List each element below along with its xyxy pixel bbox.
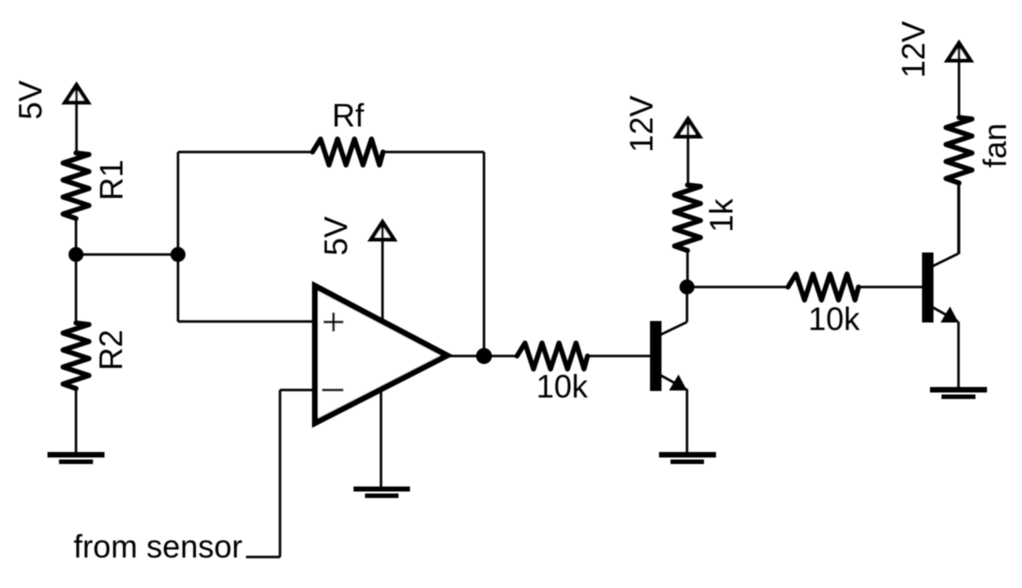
resistor 10k (base Q1) <box>517 343 588 369</box>
op-amp plus sign <box>324 313 344 332</box>
wire Rf left <box>178 151 314 154</box>
svg-text:10k: 10k <box>536 369 589 405</box>
wire Q2 collector vertical <box>957 183 960 254</box>
wire 10k to Q2 base <box>859 286 923 289</box>
wire node C to 10k (Q2 base) <box>687 286 788 289</box>
power symbol 12V (fan) <box>948 43 971 61</box>
wire Q1 emitter to ground <box>686 389 689 453</box>
ground under Q1 <box>659 452 716 464</box>
resistor fan <box>946 118 972 184</box>
output junction dot <box>476 348 492 364</box>
wire Q1 collector vertical <box>686 287 689 322</box>
wire 12V supply to fan <box>958 42 961 118</box>
wire Q2 emitter to ground <box>957 322 960 389</box>
wire Rf right <box>383 151 484 154</box>
ground under op-amp <box>354 487 411 499</box>
wire op-amp 5V supply <box>381 221 384 320</box>
wire 10k to Q1 base <box>588 355 651 358</box>
wire 12V supply to 1k <box>687 118 690 186</box>
svg-text:R2: R2 <box>93 330 129 371</box>
transistor Q2 emitter line <box>933 308 958 322</box>
svg-text:fan: fan <box>977 123 1013 167</box>
wire node C to 1k <box>686 251 689 287</box>
op-amp minus sign <box>322 389 344 392</box>
wire node A to node B <box>76 253 178 256</box>
wire fan to Q2 collector <box>958 183 961 254</box>
op-amp U1 <box>315 286 447 423</box>
wire 5V supply to R1 <box>75 84 78 155</box>
transistor Q2 collector line <box>933 254 959 267</box>
transistor Q1 base bar <box>650 321 662 391</box>
svg-text:12V: 12V <box>624 95 660 153</box>
wire node B feedback vertical <box>177 152 180 322</box>
svg-text:1k: 1k <box>704 198 740 233</box>
wire to op-amp plus input <box>178 320 316 323</box>
resistor R2 <box>63 323 89 389</box>
node B junction dot <box>171 247 186 262</box>
wire node A to R2 <box>75 255 78 325</box>
resistor 10k (base Q2) <box>788 274 859 300</box>
wire from sensor horizontal <box>246 556 280 559</box>
svg-text:R1: R1 <box>94 160 130 201</box>
node C junction dot <box>680 280 695 295</box>
svg-text:from sensor: from sensor <box>74 529 243 565</box>
ground under Q2 <box>930 387 987 399</box>
wire op-amp output <box>450 355 518 358</box>
transistor Q2 emitter arrow <box>941 307 959 323</box>
transistor Q1 collector line <box>661 322 687 335</box>
resistor R1 <box>63 153 89 219</box>
power symbol 12V (1k) <box>677 119 700 137</box>
transistor Q1 emitter line <box>661 376 687 390</box>
wire feedback right vertical <box>483 152 486 356</box>
svg-text:5V: 5V <box>13 80 49 120</box>
transistor Q2 base bar <box>922 253 934 323</box>
svg-text:5V: 5V <box>318 216 354 256</box>
svg-text:Rf: Rf <box>332 98 364 134</box>
ground under R2 <box>48 452 105 464</box>
wire op-amp ground <box>380 390 383 487</box>
svg-text:10k: 10k <box>808 301 861 337</box>
wire R1 to node A <box>75 219 78 255</box>
resistor 1k <box>675 185 701 251</box>
wire R2 to ground <box>75 389 78 454</box>
transistor Q1 emitter arrow <box>669 375 687 391</box>
node A junction dot <box>69 247 84 262</box>
svg-text:12V: 12V <box>896 20 932 78</box>
power symbol 5V (op-amp) <box>371 222 394 240</box>
wire minus input vertical (from sensor) <box>279 390 282 557</box>
wire minus input horizontal <box>280 389 316 392</box>
power symbol 5V (left) <box>65 85 88 103</box>
resistor Rf <box>313 139 384 165</box>
